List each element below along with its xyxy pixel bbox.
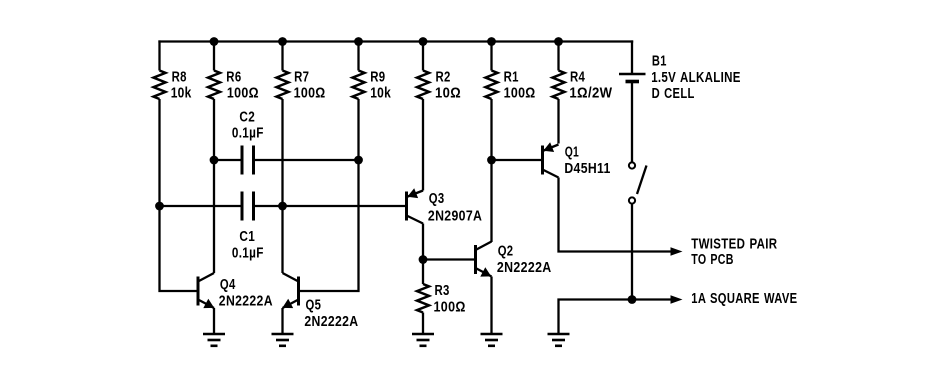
transistor Q1 emitter slant: [543, 145, 559, 152]
transistor Q5 emitter arrow: [282, 299, 293, 308]
svg-text:0.1µF: 0.1µF: [232, 245, 264, 261]
node rail/R6 junction: [210, 37, 219, 46]
transistor Q1 D45H11 base bar: [541, 146, 544, 175]
arrow to twisted pair: [671, 247, 683, 255]
svg-text:0.1µF: 0.1µF: [232, 126, 264, 142]
wire Q1 base wire: [492, 159, 543, 161]
battery B1 negative plate: [626, 80, 640, 84]
svg-text:1Ω/2W: 1Ω/2W: [569, 86, 612, 102]
wire C1 node down to Q5 collector: [281, 206, 283, 273]
svg-text:10Ω: 10Ω: [435, 86, 461, 102]
svg-text:2N2222A: 2N2222A: [219, 294, 273, 310]
svg-text:R6: R6: [226, 70, 241, 86]
svg-text:B1: B1: [652, 54, 667, 70]
svg-text:D CELL: D CELL: [652, 86, 695, 102]
wire R7 bottom through C2 row to C1 node: [281, 99, 283, 206]
svg-text:100Ω: 100Ω: [434, 300, 466, 316]
svg-text:TWISTED PAIR: TWISTED PAIR: [691, 236, 777, 252]
wire R7 column: rail to resistor: [281, 42, 283, 71]
resistor R6: [208, 71, 220, 100]
svg-text:R3: R3: [435, 283, 450, 299]
svg-text:10k: 10k: [171, 86, 192, 102]
resistor R8: [154, 71, 166, 100]
wire R3 to ground: [422, 313, 424, 335]
wire Q1 collector down and right to twisted pair arrow: [559, 178, 672, 252]
wire R9 bottom to C2 node: [357, 99, 359, 160]
switch S1 bottom contact: [629, 197, 635, 203]
svg-text:10k: 10k: [370, 86, 391, 102]
svg-text:100Ω: 100Ω: [504, 86, 536, 102]
svg-text:TO PCB: TO PCB: [691, 252, 733, 268]
ground at 1A line: [548, 334, 570, 346]
wire R2 bottom to Q3 emitter: [422, 99, 424, 191]
node rail/R1 junction: [487, 37, 496, 46]
wire R6 bottom to C2 node: [213, 99, 215, 160]
capacitor C1 right plate: [252, 192, 255, 221]
wire Q2 base wire: [423, 258, 476, 260]
node switch/1A-line junction: [628, 295, 637, 304]
wire 1A square wave line from ground corner to arrow: [559, 300, 672, 335]
node rail/R9 junction: [354, 37, 363, 46]
node rail/R7 junction: [278, 37, 287, 46]
transistor Q1 collector slant: [543, 170, 559, 178]
node R8/C1 junction: [155, 202, 164, 211]
ground at Q5 emitter: [272, 334, 294, 346]
wire rail right end down to battery: [631, 40, 633, 74]
transistor Q5 collector slant: [283, 273, 299, 282]
resistor R2: [417, 71, 429, 100]
wire R9 column: rail to resistor: [357, 42, 359, 71]
resistor R7: [277, 71, 289, 100]
resistor R1: [486, 71, 498, 100]
resistor R9: [353, 71, 365, 100]
battery B1 positive plate: [619, 73, 646, 76]
svg-text:R1: R1: [504, 70, 519, 86]
svg-text:R2: R2: [436, 70, 451, 86]
wire Q3 collector down to R3 node: [422, 224, 424, 260]
svg-text:2N2222A: 2N2222A: [497, 260, 552, 276]
wire C2 left lead: [214, 159, 242, 161]
capacitor C2 right plate: [252, 146, 255, 175]
node Q3-collector/R3/Q2-base junction: [419, 255, 428, 264]
transistor Q1 emitter arrow (PNP, points to base): [543, 142, 554, 152]
wire C1 right lead to Q3 base: [254, 205, 407, 207]
transistor Q4 emitter slant: [198, 300, 214, 309]
wire C2 right lead: [254, 159, 359, 161]
wire C2 node down to Q4 collector: [213, 160, 215, 273]
wire Q2 emitter to ground: [490, 277, 492, 335]
transistor Q5 emitter slant: [283, 300, 299, 309]
svg-text:Q1: Q1: [565, 145, 579, 161]
node R6/C2 junction: [210, 156, 219, 165]
svg-text:1A SQUARE WAVE: 1A SQUARE WAVE: [691, 291, 797, 307]
transistor Q2 collector slant: [476, 242, 492, 251]
wire top supply rail: [158, 40, 633, 42]
node R9/C2 junction: [354, 156, 363, 165]
transistor Q3 emitter slant: [407, 191, 424, 198]
svg-text:D45H11: D45H11: [564, 161, 610, 177]
wire R8 bottom to C1 node: [158, 99, 160, 206]
resistor R3: [417, 284, 429, 313]
svg-text:Q4: Q4: [220, 277, 236, 293]
wire node down to Q2 collector: [490, 160, 492, 242]
ground at Q2 emitter: [481, 334, 503, 346]
transistor Q3 emitter arrow (PNP, points to base): [407, 188, 418, 198]
svg-text:Q2: Q2: [498, 243, 514, 259]
capacitor C2 left plate: [241, 146, 244, 175]
wire Q4 emitter to ground: [213, 308, 215, 334]
svg-text:Q3: Q3: [429, 191, 445, 207]
transistor Q3 2N2907A base bar: [405, 192, 408, 221]
wire node to R3: [422, 260, 424, 285]
capacitor C1 left plate: [241, 192, 244, 221]
wire R6 column: rail to resistor: [213, 42, 215, 71]
transistor Q4 emitter arrow: [203, 299, 214, 308]
node R7/C1/Q5-collector junction: [278, 202, 287, 211]
wire R2 column: rail to resistor: [422, 42, 424, 71]
ground at R3: [412, 334, 434, 346]
wire C1 left lead from R8 node: [160, 205, 243, 207]
svg-text:100Ω: 100Ω: [294, 86, 326, 102]
transistor Q5 2N2222A base bar: [297, 277, 300, 306]
node R1/Q1-base junction: [487, 156, 496, 165]
transistor Q3 collector slant: [407, 216, 424, 224]
wire R4 column: rail to resistor: [557, 42, 559, 71]
svg-text:R9: R9: [370, 70, 385, 86]
wire R8 column: rail to resistor: [158, 40, 160, 70]
arrow to 1A square wave: [671, 295, 683, 303]
wire R1 column: rail to resistor: [490, 42, 492, 71]
svg-text:100Ω: 100Ω: [227, 86, 259, 102]
ground at Q4 emitter: [203, 334, 225, 346]
wire R9 node down and left to Q5 base: [299, 160, 359, 291]
transistor Q4 2N2222A base bar: [197, 277, 200, 306]
svg-text:R7: R7: [294, 70, 309, 86]
svg-text:2N2907A: 2N2907A: [428, 208, 482, 224]
svg-text:R8: R8: [172, 70, 187, 86]
switch S1 top contact: [629, 162, 635, 168]
wire R4 bottom to Q1 emitter: [557, 99, 559, 144]
node rail/R2 junction: [419, 37, 428, 46]
svg-text:C1: C1: [239, 229, 255, 245]
resistor R4: [553, 71, 565, 100]
wire R1 bottom to Q1-base node: [490, 99, 492, 160]
node rail/R4 junction: [554, 37, 563, 46]
transistor Q4 collector slant: [198, 273, 214, 282]
svg-text:1.5V ALKALINE: 1.5V ALKALINE: [651, 70, 741, 86]
transistor Q2 emitter arrow: [480, 267, 491, 276]
svg-text:R4: R4: [570, 70, 585, 86]
transistor Q2 emitter slant: [476, 268, 492, 277]
svg-text:C2: C2: [239, 110, 255, 126]
wire battery to switch: [631, 82, 633, 163]
wire Q5 emitter to ground: [281, 308, 283, 334]
transistor Q2 2N2222A base bar: [474, 245, 477, 274]
svg-text:2N2222A: 2N2222A: [304, 314, 358, 330]
wire R8 node down and right to Q4 base: [160, 206, 199, 291]
wire switch bottom down to 1A node: [631, 204, 633, 300]
svg-text:Q5: Q5: [306, 297, 322, 313]
switch S1 blade: [637, 166, 647, 195]
